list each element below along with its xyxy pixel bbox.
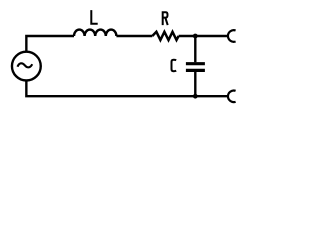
- label C: [172, 60, 177, 71]
- label R: [163, 12, 168, 25]
- terminal top output: [228, 30, 236, 42]
- resistor R1 zigzag: [152, 32, 178, 40]
- inductor L1 coil: [74, 30, 116, 36]
- junction node top (R/C/output): [193, 34, 198, 39]
- wire bottom rail from source to bottom output terminal: [26, 80, 228, 96]
- AC source sine symbol: [18, 63, 33, 67]
- AC source V1 circle: [12, 52, 41, 81]
- wire top-left from source to top rail: [26, 36, 74, 52]
- capacitor C1 bottom plate: [186, 69, 205, 72]
- wire from resistor to top output terminal: [179, 35, 229, 37]
- wire between inductor and resistor: [116, 35, 152, 37]
- wire capacitor bottom lead: [194, 72, 196, 96]
- capacitor C1 top plate: [186, 62, 205, 65]
- terminal bottom output: [228, 91, 236, 103]
- label L: [91, 10, 97, 24]
- junction node bottom (C/bottom rail): [193, 94, 198, 99]
- wire capacitor top lead: [194, 36, 196, 62]
